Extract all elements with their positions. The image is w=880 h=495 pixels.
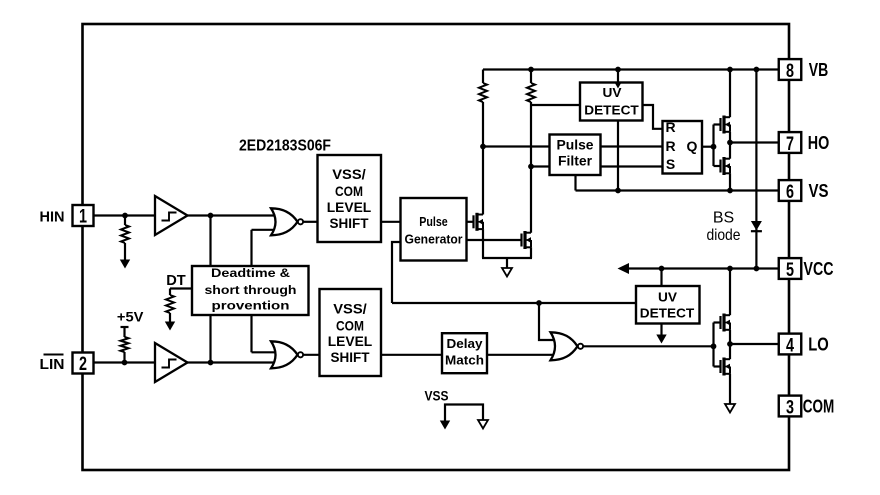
- pin 2 LIN box: [73, 353, 94, 376]
- wire Q2 source down: [530, 247, 532, 258]
- wire deadtime bottom to U2 output junction: [209, 315, 211, 363]
- block UV detect 2: [636, 286, 700, 324]
- svg-text:SHIFT: SHIFT: [331, 349, 370, 365]
- ground COM open arrow below Q6: [725, 404, 735, 413]
- resistor R4 pullup: [479, 70, 487, 215]
- svg-text:UV: UV: [658, 290, 677, 305]
- ground COM open arrow below level shifters: [502, 268, 512, 277]
- svg-text:HIN: HIN: [40, 209, 65, 226]
- wire level shift 2 to delay match: [381, 354, 442, 356]
- transistor Q4 HO low side: [714, 157, 731, 175]
- transistor Q1 level shift: [474, 213, 484, 231]
- wire HO output to pin 7: [730, 141, 779, 143]
- svg-text:LO: LO: [808, 335, 829, 355]
- svg-text:COM: COM: [335, 183, 363, 199]
- svg-text:Filter: Filter: [558, 153, 593, 168]
- ground VSS arrow below R1: [120, 260, 130, 269]
- svg-text:VS: VS: [809, 181, 829, 201]
- label VS: [809, 181, 829, 201]
- block UV detect 1: [580, 83, 643, 121]
- wire pulse filter bottom to VS rail: [574, 175, 576, 191]
- svg-text:BS: BS: [713, 210, 734, 227]
- node R4 line tap to pulse filter: [480, 144, 486, 150]
- NOR gate G2: [271, 341, 303, 368]
- pin 8 VB box: [779, 59, 802, 82]
- wire level shift 1 to pulse generator: [381, 221, 401, 223]
- node VS rail junction UV1: [615, 188, 621, 194]
- label VSS: [425, 389, 449, 404]
- resistor R5 pullup: [527, 70, 535, 233]
- svg-text:COM: COM: [336, 317, 364, 333]
- block pulse generator: [401, 198, 467, 261]
- svg-text:provention: provention: [212, 299, 290, 313]
- wire U2 output to NOR gate G2: [187, 361, 277, 363]
- label BS diode: [707, 210, 741, 245]
- svg-text:Match: Match: [445, 353, 484, 368]
- svg-text:DETECT: DETECT: [640, 306, 695, 321]
- wire VB rail to UV detect 1 top: [617, 70, 619, 89]
- node VB rail junction BS diode: [754, 67, 760, 73]
- node U2 output junction: [208, 360, 214, 366]
- wire U1 output to NOR gate G1: [187, 214, 277, 216]
- wire R5 tap to pulse filter input 2: [531, 165, 550, 167]
- node VB rail junction R5: [528, 67, 534, 73]
- svg-text:LEVEL: LEVEL: [328, 333, 373, 349]
- block VSS/COM level shift 2: [320, 289, 382, 376]
- wire VS rail: [576, 189, 779, 191]
- wire pin1 to schmitt U1: [94, 214, 156, 216]
- supply +5V symbol: [117, 308, 144, 327]
- svg-text:S: S: [666, 156, 675, 172]
- svg-text:Q: Q: [687, 138, 698, 154]
- node R5 line tap to pulse filter: [528, 164, 534, 170]
- svg-text:R: R: [665, 138, 675, 154]
- part number label 2ED2183S06F: [239, 138, 331, 155]
- ground VSS arrow below R2: [165, 322, 175, 331]
- node COM rail junction: [536, 300, 542, 306]
- svg-text:+5V: +5V: [117, 308, 144, 324]
- svg-text:7: 7: [786, 133, 794, 155]
- wire R4 tap to pulse filter input 1: [483, 145, 550, 147]
- wire Q1 source down: [482, 229, 484, 258]
- svg-text:Pulse: Pulse: [557, 138, 594, 153]
- node VCC rail junction UV2: [659, 266, 665, 272]
- svg-text:HO: HO: [808, 133, 830, 153]
- label COM: [803, 397, 835, 417]
- svg-text:VSS/: VSS/: [333, 300, 367, 316]
- wire PG lower-left stub to COM rail: [392, 242, 401, 303]
- diode D1 bootstrap: [751, 221, 762, 231]
- wire Q4 source to VS rail: [729, 173, 731, 190]
- svg-text:6: 6: [786, 181, 794, 203]
- wire LO common node: [729, 330, 731, 359]
- label VB: [809, 60, 829, 80]
- wire UV detect 1 output to latch R: [643, 105, 663, 129]
- node VCC rail junction Q5 drain: [727, 266, 733, 272]
- svg-text:Generator: Generator: [405, 232, 463, 247]
- node VS rail junction Q4 source: [727, 188, 733, 194]
- wire LO output to pin 4: [730, 343, 779, 345]
- label VCC: [804, 259, 834, 279]
- svg-text:Delay: Delay: [447, 336, 484, 351]
- svg-text:DETECT: DETECT: [584, 102, 639, 117]
- wire Q3 drain to VB rail: [729, 70, 731, 118]
- svg-text:UV: UV: [603, 85, 622, 100]
- svg-text:COM: COM: [803, 397, 835, 417]
- arrow VCC to internal supply: [618, 263, 630, 274]
- svg-text:8: 8: [786, 60, 794, 82]
- svg-text:3: 3: [786, 396, 794, 418]
- wire G3 output to LO gate bus: [584, 345, 714, 347]
- svg-text:LEVEL: LEVEL: [327, 199, 372, 215]
- block delay match: [442, 333, 487, 373]
- schmitt trigger U2: [155, 343, 188, 382]
- ground VSS arrow left leg: [440, 421, 450, 430]
- pin 1 HIN box: [73, 205, 94, 228]
- node VCC rail junction BS diode: [754, 266, 760, 272]
- svg-text:VSS/: VSS/: [332, 166, 366, 182]
- schmitt trigger U1: [155, 196, 188, 235]
- wire DT stub: [170, 289, 192, 296]
- svg-text:Pulse: Pulse: [419, 214, 448, 229]
- wire junction down to deadtime block: [209, 216, 211, 267]
- svg-text:short through: short through: [205, 283, 297, 297]
- label LIN with overline: [40, 355, 65, 374]
- resistor R3 pullup: [121, 327, 129, 363]
- svg-text:VB: VB: [809, 60, 829, 80]
- wire internal COM rail to UV detect 2: [392, 302, 636, 304]
- svg-text:DT: DT: [166, 273, 186, 289]
- svg-text:diode: diode: [707, 227, 741, 244]
- transistor Q2 level shift: [522, 231, 532, 249]
- wire PG lower output to Q2 gate: [467, 239, 522, 241]
- wire deadtime bottom to G2 upper input: [252, 315, 277, 352]
- wire LO gate bus: [712, 323, 714, 367]
- transistor Q3 HO high side: [714, 116, 731, 134]
- pin 4 LO box: [779, 334, 802, 357]
- ground COM open arrow right leg: [478, 420, 488, 429]
- wire HO gate bus: [712, 125, 714, 167]
- wire delay match to NOR gate G3: [487, 354, 556, 356]
- svg-text:2: 2: [79, 353, 87, 375]
- IC boundary box: [83, 24, 790, 470]
- node VB rail junction Q3 drain: [727, 67, 733, 73]
- wire G2 output to level shift 2: [303, 354, 320, 356]
- svg-text:5: 5: [786, 259, 794, 281]
- wire HO common node: [729, 132, 731, 159]
- VSS rail bracket: [445, 405, 483, 422]
- NOR gate G1: [271, 208, 303, 235]
- node HO output junction: [727, 140, 733, 146]
- wire pin2 to schmitt U2: [94, 361, 156, 363]
- wire VCC rail: [627, 267, 779, 269]
- transistor Q5 LO high side: [714, 314, 731, 332]
- wire G1 output to level shift 1: [303, 221, 318, 223]
- arrow UV detect 1 top pin into box: [615, 84, 621, 89]
- pin 6 VS box: [779, 180, 802, 203]
- resistor R1 HIN pulldown: [121, 216, 129, 261]
- label LO: [808, 335, 829, 355]
- svg-text:2ED2183S06F: 2ED2183S06F: [239, 138, 331, 155]
- pin 5 VCC box: [779, 258, 802, 281]
- wire Q5 drain to VCC rail: [729, 269, 731, 316]
- wire Q6 source down: [729, 374, 731, 404]
- latch U3 RRS-Q: [663, 119, 703, 174]
- wire VB rail: [483, 68, 779, 70]
- wire BS diode branch VB to VCC: [755, 70, 757, 269]
- block pulse filter: [550, 135, 601, 176]
- transistor Q6 LO low side: [714, 358, 731, 376]
- svg-text:SHIFT: SHIFT: [330, 215, 369, 231]
- wire pulse filter to latch S input: [601, 165, 663, 167]
- wire UV detect 1 bottom to VS rail: [617, 121, 619, 191]
- wire PG upper output to Q1 gate: [467, 221, 474, 223]
- resistor R2 DT: [166, 295, 174, 322]
- node LO gate bus junction: [711, 343, 717, 349]
- wire pulse filter to latch R input: [601, 145, 663, 147]
- wire VCC rail to UV detect 2 top: [660, 269, 662, 287]
- label HO: [808, 133, 830, 153]
- node LO output junction: [727, 341, 733, 347]
- wire junction down to G3 upper input: [539, 303, 556, 340]
- svg-text:4: 4: [786, 334, 794, 356]
- label HIN: [40, 209, 65, 226]
- wire deadtime to G1 lower input: [252, 230, 277, 266]
- wire R5 line to UV detect 1 input: [531, 104, 580, 106]
- ground VSS arrow below UV detect 2: [656, 335, 666, 344]
- node HIN input junction: [122, 213, 128, 219]
- pin 7 HO box: [779, 132, 802, 155]
- label DT: [166, 273, 186, 289]
- node LIN input junction: [122, 360, 128, 366]
- pin 3 COM box: [779, 396, 802, 419]
- svg-text:R: R: [665, 119, 675, 135]
- NOR gate G3: [551, 332, 584, 360]
- block VSS/COM level shift 1: [318, 155, 382, 242]
- wire latch Q output to HO gate bus: [702, 146, 714, 148]
- wire UV detect 2 bottom: [660, 324, 662, 336]
- svg-text:VSS: VSS: [425, 389, 449, 404]
- block deadtime and shoot-through prevention: [192, 266, 309, 315]
- node VB rail junction UV1: [615, 67, 621, 73]
- svg-text:1: 1: [79, 206, 87, 228]
- svg-text:Deadtime &: Deadtime &: [211, 266, 290, 280]
- wire common source rail: [482, 258, 532, 269]
- node HO gate bus junction: [711, 144, 717, 150]
- svg-text:VCC: VCC: [804, 259, 834, 279]
- svg-text:LIN: LIN: [40, 356, 65, 373]
- node U1 output junction: [208, 213, 214, 219]
